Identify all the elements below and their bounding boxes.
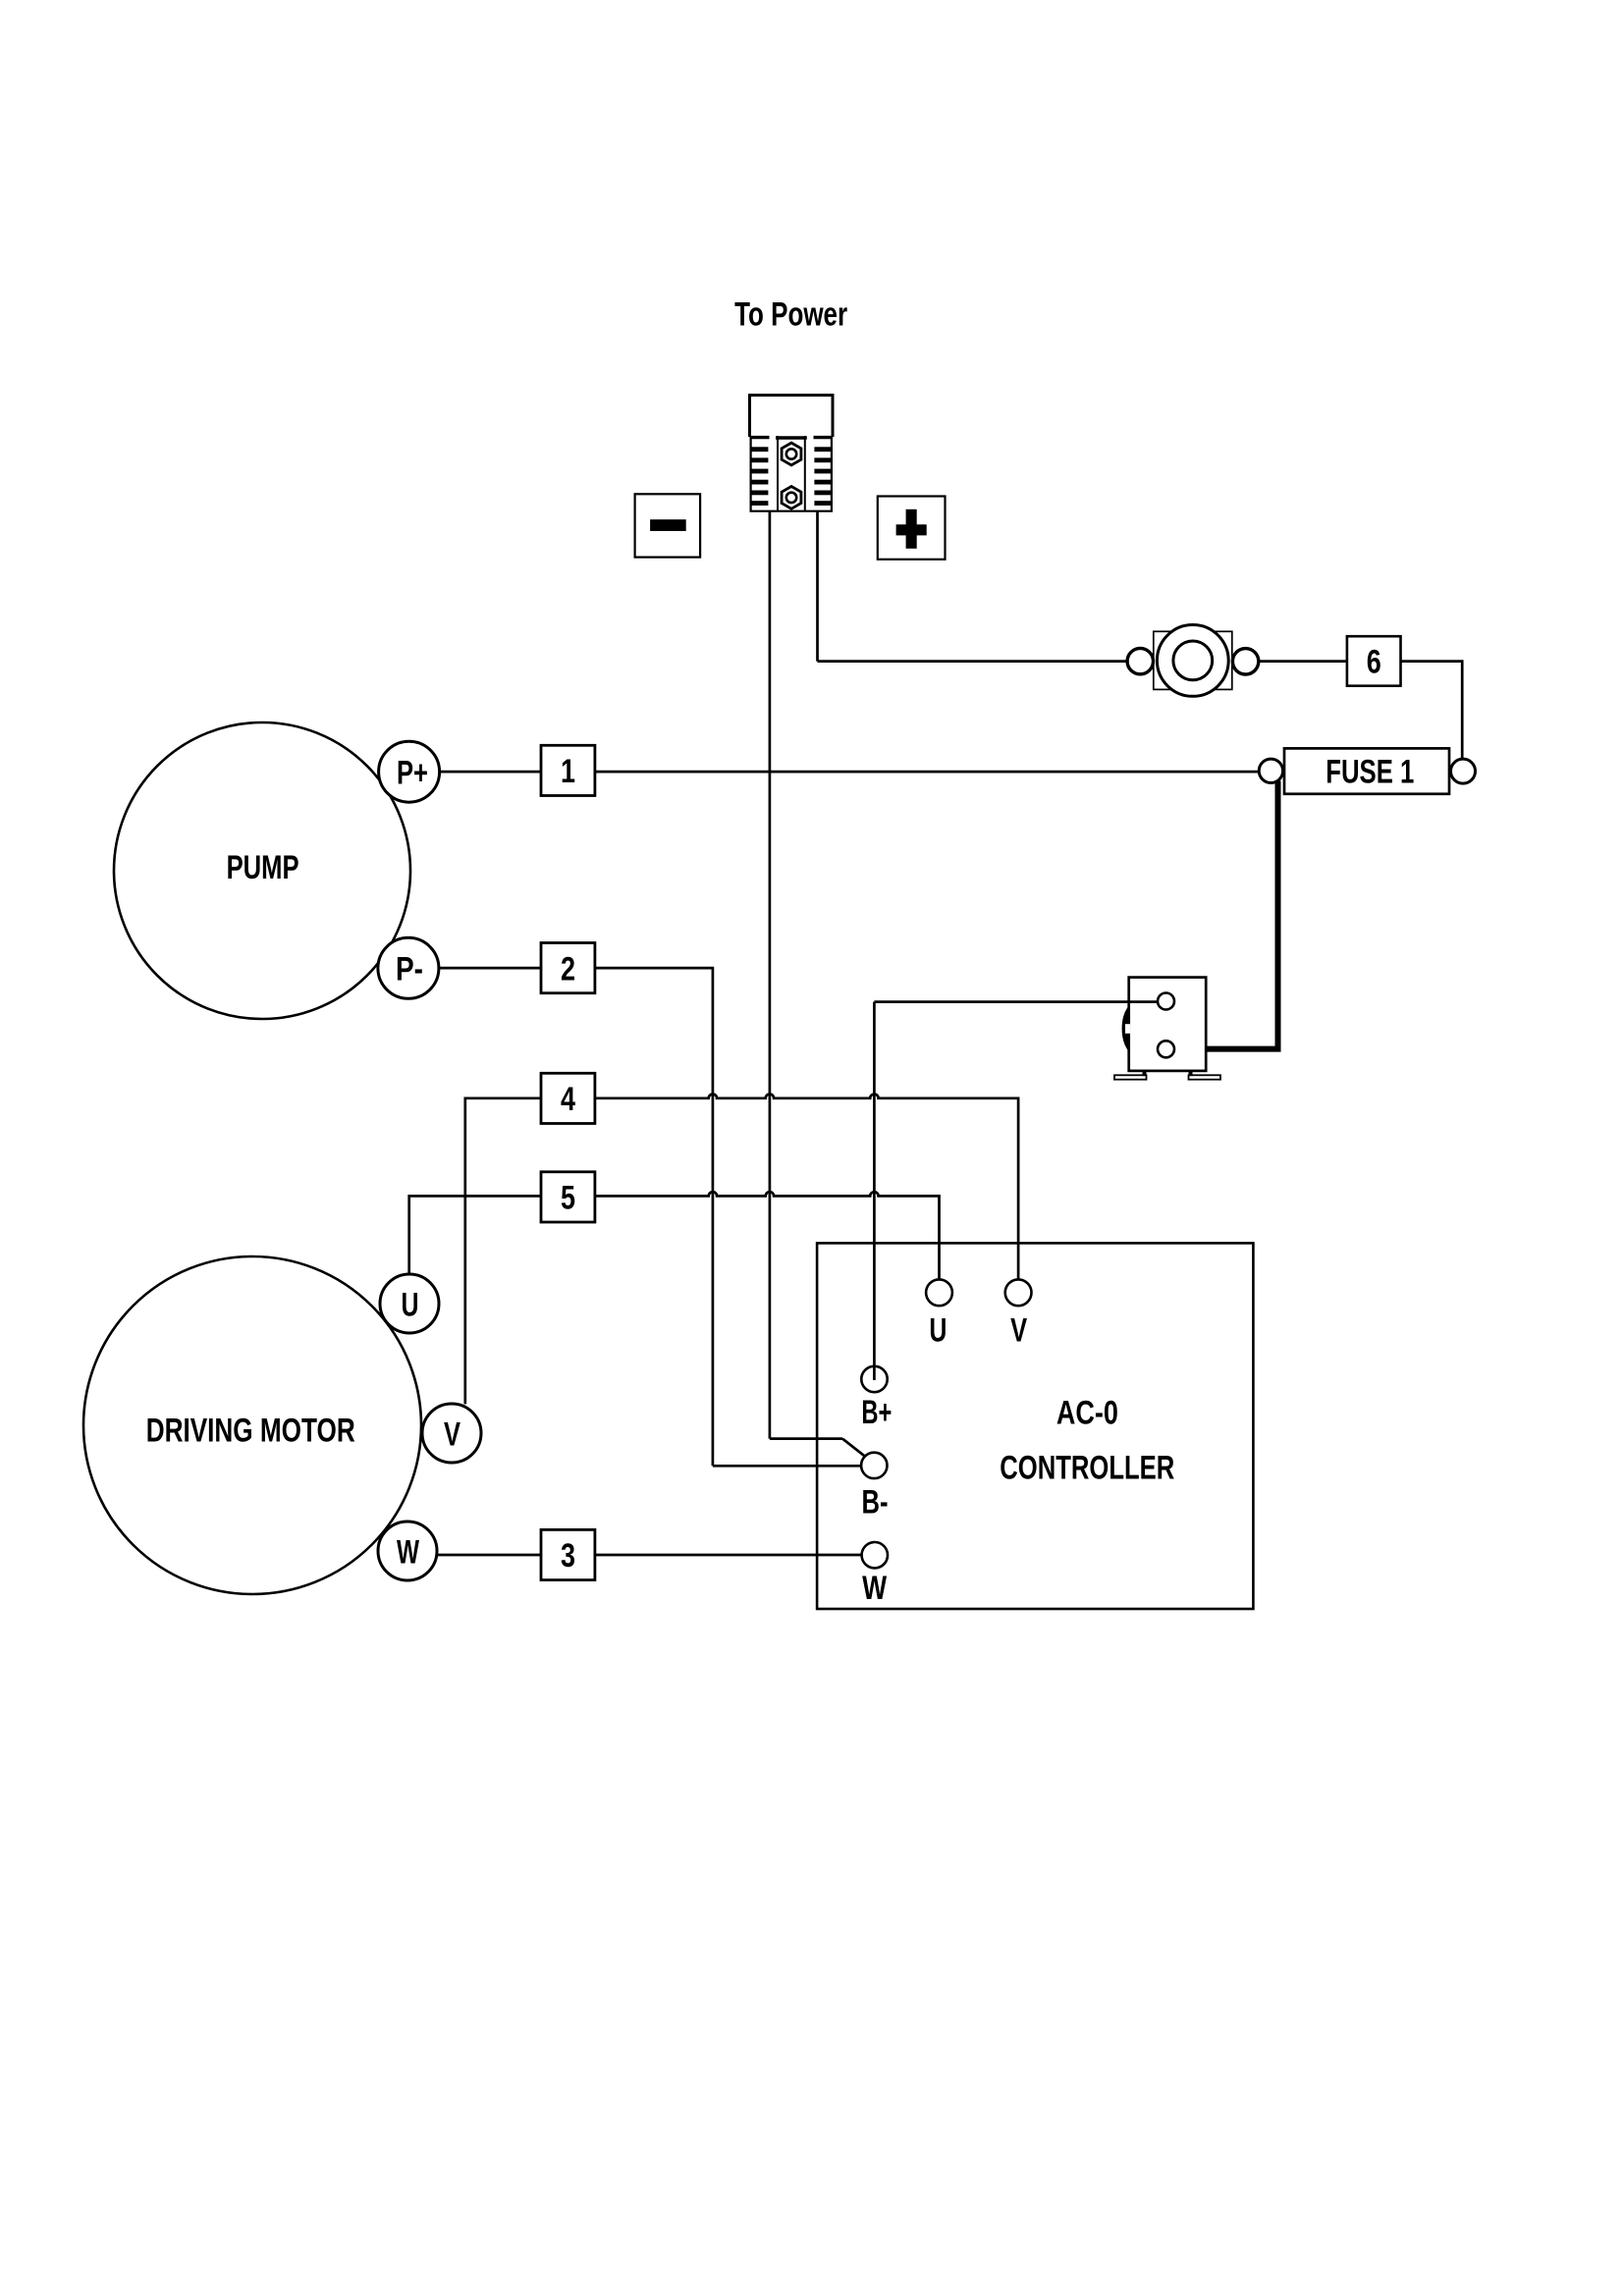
- wire: box 6 to fuse (corner): [1401, 662, 1463, 760]
- svg-text:V: V: [1010, 1312, 1027, 1350]
- wire: box 4 to controller V (hops over crossings): [595, 1095, 1018, 1280]
- wire: box 3 to controller W: [595, 1554, 862, 1557]
- wire: key switch to terminal box 6: [1259, 660, 1347, 663]
- connector J1 upper bolt: [782, 443, 801, 465]
- polarity minus box: [635, 494, 701, 557]
- pump motor M1: [114, 722, 410, 1019]
- svg-text:AC-0: AC-0: [1056, 1394, 1118, 1431]
- svg-text:W: W: [397, 1534, 420, 1572]
- svg-text:P+: P+: [397, 755, 428, 792]
- svg-text:V: V: [444, 1416, 460, 1454]
- svg-text:6: 6: [1367, 644, 1381, 681]
- connector J1 center channel: [776, 436, 807, 511]
- terminal box 5: [541, 1172, 595, 1222]
- contactor K1 coil clip: [1122, 1005, 1130, 1053]
- controller terminal B-: [861, 1453, 888, 1522]
- svg-text:CONTROLLER: CONTROLLER: [1000, 1449, 1174, 1486]
- wire: P- to box 2: [439, 967, 541, 970]
- contactor K1 right foot: [1189, 1071, 1221, 1080]
- wire: connector positive lead (down): [816, 511, 819, 662]
- polarity plus box: [878, 497, 946, 560]
- wire: box 1 to fuse: [595, 771, 1260, 774]
- contactor K1 body: [1129, 978, 1207, 1071]
- wire: positive lead to key switch: [818, 660, 1128, 663]
- terminal box 4: [541, 1073, 595, 1123]
- svg-text:1: 1: [561, 753, 575, 790]
- svg-text:PUMP: PUMP: [227, 849, 299, 886]
- controller AC-0 box: [817, 1243, 1253, 1609]
- terminal box 2: [541, 943, 595, 993]
- terminal box 6: [1347, 636, 1401, 686]
- pump terminal P-: [378, 937, 439, 998]
- driving motor M2: [83, 1256, 421, 1594]
- terminal box 3: [541, 1529, 595, 1579]
- wire: B+ riser (down to controller B+): [873, 1002, 876, 1366]
- key switch S1: [1127, 625, 1259, 697]
- controller terminal V: [1005, 1279, 1032, 1349]
- svg-text:P-: P-: [396, 951, 423, 988]
- wire: P+ to box 1: [440, 771, 541, 774]
- wire: motor W to box 3: [437, 1554, 541, 1557]
- controller terminal W: [862, 1542, 888, 1607]
- svg-text:W: W: [862, 1570, 888, 1607]
- label: To Power: [734, 296, 847, 334]
- wire: negative lead diagonal into B-: [842, 1439, 865, 1457]
- wire: contactor top terminal to B+ riser: [874, 1000, 1158, 1003]
- motor terminal U: [380, 1274, 439, 1333]
- svg-text:FUSE 1: FUSE 1: [1326, 754, 1414, 791]
- wire: motor U to box 5 (up, right): [409, 1196, 541, 1274]
- wire: box 5 to controller U (hops over crossings): [595, 1192, 940, 1279]
- terminal box 1: [541, 745, 595, 795]
- svg-text:5: 5: [561, 1180, 575, 1217]
- connector J1 lower bolt: [782, 487, 801, 509]
- svg-text:U: U: [402, 1287, 419, 1324]
- contactor K1 bottom terminal: [1158, 1041, 1174, 1057]
- svg-text:2: 2: [561, 950, 575, 988]
- connector J1 left comb: [750, 438, 770, 506]
- svg-text:To Power: To Power: [734, 296, 847, 334]
- motor terminal V: [422, 1404, 481, 1463]
- wire: box 2 to B- (right, down, right): [595, 968, 861, 1466]
- controller terminal B+: [861, 1366, 892, 1431]
- controller terminal U: [926, 1279, 952, 1349]
- wire: motor V to box 4 (up, right): [465, 1098, 541, 1405]
- svg-text:4: 4: [561, 1081, 575, 1118]
- connector J1 right comb: [814, 438, 834, 506]
- svg-text:3: 3: [561, 1537, 575, 1575]
- contactor K1 top terminal: [1158, 993, 1174, 1010]
- svg-text:B-: B-: [862, 1483, 889, 1521]
- fuse FUSE 1: [1259, 748, 1475, 793]
- svg-text:U: U: [929, 1312, 947, 1350]
- contactor K1 left foot: [1114, 1071, 1147, 1080]
- thick wire: fuse to contactor: [1174, 781, 1278, 1049]
- motor terminal W: [378, 1522, 437, 1580]
- wire: connector negative lead (down): [769, 511, 772, 1439]
- wire: negative lead horizontal to B-: [770, 1437, 842, 1440]
- battery connector J1 body: [750, 396, 834, 512]
- svg-text:B+: B+: [861, 1394, 892, 1431]
- svg-text:DRIVING MOTOR: DRIVING MOTOR: [146, 1412, 355, 1449]
- pump terminal P+: [379, 741, 440, 802]
